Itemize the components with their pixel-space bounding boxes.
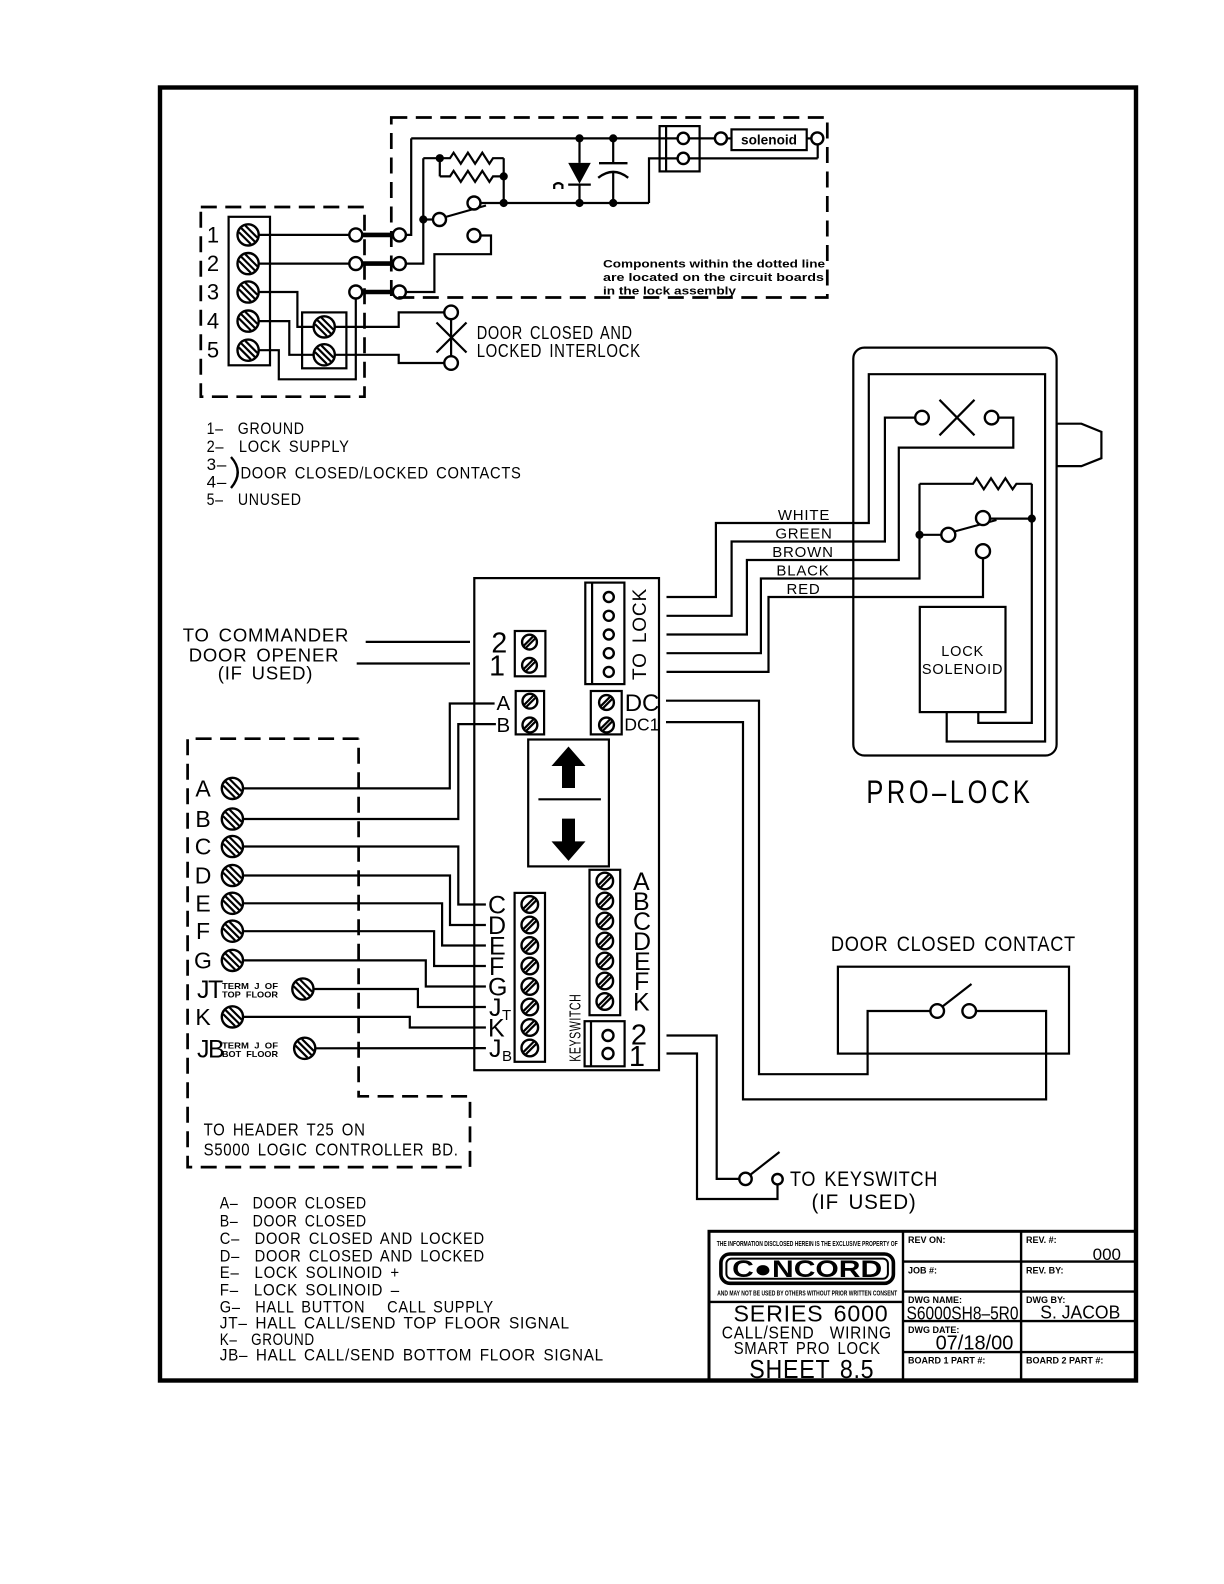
door switch S4 throw: [962, 1004, 976, 1018]
svg-text:(IF USED): (IF USED): [218, 663, 314, 684]
svg-text:1: 1: [629, 1041, 645, 1073]
svg-text:B– DOOR CLOSED: B– DOOR CLOSED: [220, 1212, 367, 1231]
node throw: [1028, 515, 1036, 523]
lock solenoid box: [920, 607, 1006, 712]
svg-text:S. JACOB: S. JACOB: [1040, 1302, 1120, 1323]
wire pivot stub: [423, 218, 433, 220]
wire to commander 1: [357, 662, 470, 664]
terminal block TB1 body: [229, 217, 270, 365]
svg-text:(IF USED): (IF USED): [812, 1191, 917, 1214]
header strip screws C-JB: [522, 896, 539, 913]
svg-text:DOOR CLOSED/LOCKED CONTACTS: DOOR CLOSED/LOCKED CONTACTS: [241, 463, 522, 482]
svg-text:B: B: [497, 714, 511, 737]
wire brown: [667, 418, 1014, 635]
svg-text:S5000 LOGIC CONTROLLER BD.: S5000 LOGIC CONTROLLER BD.: [204, 1139, 459, 1159]
aux screw upper: [314, 316, 335, 337]
resistor R1: [423, 153, 503, 164]
header labels: [194, 775, 212, 1030]
svg-text:4: 4: [207, 309, 219, 334]
lock relay strip body: [590, 870, 621, 1015]
terminal 2 screw: [238, 253, 259, 274]
node pivot junction: [419, 215, 427, 223]
diode D1: [578, 138, 580, 163]
node diode top: [575, 134, 583, 142]
header T25 dashed enclosure: [188, 739, 470, 1167]
wire terminal 2 to contact: [259, 263, 350, 265]
svg-text:BLACK: BLACK: [776, 563, 829, 580]
node capacitor bottom: [609, 199, 617, 207]
bottom rail: [481, 202, 650, 204]
svg-text:K: K: [633, 989, 650, 1017]
svg-text:5– UNUSED: 5– UNUSED: [207, 490, 302, 509]
wire row 1 riser to top rail: [406, 138, 411, 235]
svg-text:2– LOCK SUPPLY: 2– LOCK SUPPLY: [207, 437, 350, 456]
svg-text:REV ON:: REV ON:: [908, 1235, 946, 1245]
terminal 4 screw: [238, 311, 259, 332]
wire black: [667, 535, 920, 653]
node bottom rail left: [500, 199, 508, 207]
svg-text:3: 3: [207, 280, 219, 305]
pro-lock interlock X: [940, 400, 975, 436]
pro-lock interlock contacts: [915, 411, 929, 425]
switch S3 pivot contact: [941, 528, 955, 542]
keyswitch S5 throw: [772, 1174, 782, 1184]
wire JB to board: [315, 1047, 486, 1049]
commander screw 2: [522, 635, 537, 650]
door switch S4 arm: [943, 984, 972, 1007]
interlock X symbol: [437, 323, 467, 353]
svg-text:GREEN: GREEN: [775, 526, 832, 543]
svg-text:LOCKED INTERLOCK: LOCKED INTERLOCK: [477, 341, 641, 361]
keyswitch S5 arm: [751, 1152, 780, 1175]
svg-text:TOP FLOOR: TOP FLOOR: [222, 991, 278, 1000]
svg-text:BOT FLOOR: BOT FLOOR: [222, 1050, 278, 1059]
wire aux upper to interlock: [335, 312, 445, 327]
pro-lock latch tab: [1057, 424, 1102, 466]
node resistor left: [436, 154, 444, 162]
svg-text:E– LOCK SOLINOID +: E– LOCK SOLINOID +: [220, 1263, 400, 1282]
svg-text:TO COMMANDER: TO COMMANDER: [183, 624, 349, 645]
svg-text:C– DOOR CLOSED AND LOCKED: C– DOOR CLOSED AND LOCKED: [220, 1229, 485, 1248]
connector upper pin line: [660, 137, 715, 139]
resistor R3: [920, 478, 1032, 489]
legend header signals: [220, 1194, 604, 1365]
svg-text:B: B: [502, 1048, 512, 1065]
wire F to board: [243, 931, 486, 966]
title cell labels: [908, 1235, 1103, 1366]
svg-text:A– DOOR CLOSED: A– DOOR CLOSED: [220, 1194, 367, 1213]
svg-text:DC1: DC1: [624, 715, 659, 735]
connector pin contacts: [678, 133, 689, 144]
keyswitch pins: [603, 1030, 614, 1041]
arrow indicator box: [528, 740, 609, 867]
connector contact pair row 1: [349, 228, 362, 241]
board labels C-JB: [488, 891, 507, 1063]
svg-text:G: G: [194, 947, 212, 973]
switch S1 NC throw on bottom rail: [468, 197, 481, 210]
wire DC1 to door switch: [666, 722, 1046, 1099]
wire throw upper to node: [990, 517, 1032, 519]
terminal block TB1 dashed enclosure: [201, 207, 365, 397]
wire K to board: [243, 1017, 486, 1028]
terminal 5 screw: [238, 340, 259, 361]
labels A-K right strip: [633, 868, 651, 1017]
wire DC to door switch: [666, 701, 930, 1074]
svg-text:TO LOCK: TO LOCK: [630, 588, 651, 680]
wire G to board: [243, 960, 486, 986]
switch S1 arm: [446, 206, 487, 218]
door switch S4 pivot: [930, 1004, 944, 1018]
node capacitor top: [609, 134, 617, 142]
wire to commander 2: [366, 641, 470, 643]
wire keyswitch 2: [667, 1036, 740, 1179]
switch S1 pivot contact: [433, 213, 446, 226]
node R2 right: [500, 172, 508, 180]
diode polarity mark: [554, 183, 562, 189]
screw A: [523, 694, 538, 709]
svg-text:BROWN: BROWN: [772, 544, 834, 561]
wire B to board: [243, 724, 496, 819]
wire white: [667, 374, 1046, 741]
concord logo: [721, 1254, 894, 1283]
svg-text:A: A: [497, 692, 511, 715]
switch S1 NO throw: [468, 229, 481, 242]
commander screw 1: [522, 658, 537, 673]
terminal 3 screw: [238, 281, 259, 302]
lock assembly dashed enclosure: [391, 118, 827, 298]
solenoid terminal right: [807, 137, 812, 139]
connector contact pair row 2: [349, 257, 362, 270]
wire solenoid return loop: [817, 144, 819, 158]
wire throw node to solenoid: [978, 519, 1032, 723]
switch S3 throw upper: [976, 511, 990, 525]
interlock switch S2 contacts: [444, 306, 458, 320]
svg-text:in the lock assembly: in the lock assembly: [603, 286, 736, 298]
solenoid terminal left: [715, 132, 727, 144]
header screw E: [222, 893, 243, 914]
svg-text:000: 000: [1093, 1245, 1121, 1264]
svg-text:3–: 3–: [207, 455, 228, 474]
svg-text:THE INFORMATION DISCLOSED HERE: THE INFORMATION DISCLOSED HEREIN IS THE …: [717, 1239, 898, 1248]
resistor R2: [440, 171, 504, 182]
svg-text:BOARD 2 PART #:: BOARD 2 PART #:: [1026, 1356, 1103, 1366]
aux terminal block TB2 body: [302, 312, 346, 368]
pro-lock housing: [853, 348, 1056, 756]
header screw B: [222, 808, 243, 829]
commander terminal block body: [515, 631, 546, 676]
wire terminal 5 to contact row 3: [259, 299, 356, 380]
TO LOCK connector J1 body: [585, 583, 624, 685]
wire terminal 3 to aux block: [259, 292, 314, 327]
svg-text:SOLENOID: SOLENOID: [922, 662, 1003, 678]
svg-text:BOARD 1 PART #:: BOARD 1 PART #:: [908, 1356, 985, 1366]
svg-text:D: D: [195, 863, 212, 889]
TO LOCK pins: [604, 592, 614, 602]
svg-text:RED: RED: [786, 581, 820, 598]
wire keyswitch 1: [667, 1054, 778, 1200]
keyswitch connector body: [585, 1021, 625, 1066]
terminal 1 screw: [238, 224, 259, 245]
header screw D: [222, 865, 243, 886]
switch S3 throw lower: [976, 544, 990, 558]
wire terminal 1 to contact: [259, 234, 350, 236]
svg-text:WHITE: WHITE: [778, 507, 830, 524]
capacitor C1: [612, 138, 614, 163]
wire JT to board: [314, 989, 486, 1007]
sheet border frame: [160, 88, 1136, 1381]
switch S3 pivot node: [915, 531, 923, 539]
wire terminal 4 to aux block: [259, 321, 314, 355]
header screw C: [222, 836, 243, 857]
legend brace: [231, 457, 238, 488]
svg-text:1: 1: [207, 222, 219, 247]
svg-text:B: B: [195, 806, 210, 832]
svg-text:C: C: [195, 834, 212, 860]
arrow divider: [538, 798, 601, 800]
svg-text:F: F: [196, 918, 210, 944]
keyswitch S5 pivot: [739, 1173, 751, 1185]
screw DC1: [599, 718, 614, 733]
svg-text:Components within the dotted l: Components within the dotted line: [603, 259, 825, 271]
wire C to board: [243, 847, 486, 905]
svg-text:REV. BY:: REV. BY:: [1026, 1265, 1064, 1275]
header screw K: [222, 1006, 243, 1027]
svg-text:K: K: [195, 1004, 211, 1030]
svg-text:REV. #:: REV. #:: [1026, 1235, 1057, 1245]
header strip body: [515, 893, 545, 1062]
aux screw lower: [314, 344, 335, 365]
wire resistor left tie: [439, 158, 441, 176]
wire aux lower to interlock: [335, 355, 445, 363]
svg-text:solenoid: solenoid: [741, 132, 797, 147]
DC terminal block body: [591, 691, 622, 734]
note components within dotted line: [603, 259, 825, 298]
wire D to board: [243, 876, 486, 926]
connector contact pair row 3: [349, 286, 362, 299]
terminal labels 1-5: [207, 222, 219, 362]
controller board outline: [474, 578, 659, 1070]
svg-text:E: E: [195, 890, 210, 916]
header screw G: [222, 950, 243, 971]
svg-text:DC: DC: [625, 690, 660, 717]
title block frame: [709, 1231, 1136, 1381]
svg-text:are located on the circuit boa: are located on the circuit boards: [603, 272, 824, 284]
svg-text:TO HEADER T25 ON: TO HEADER T25 ON: [204, 1119, 366, 1139]
wire E to board: [243, 903, 486, 945]
wire pivot stub: [920, 534, 942, 536]
svg-text:T: T: [502, 1007, 511, 1024]
wire row 3 to switch NO throw: [406, 236, 491, 293]
top supply rail: [411, 137, 659, 139]
svg-text:2: 2: [207, 251, 219, 276]
svg-text:JB– HALL CALL/SEND BOTTOM FLOO: JB– HALL CALL/SEND BOTTOM FLOOR SIGNAL: [220, 1345, 604, 1364]
connector lower pin line: [660, 157, 818, 159]
wire color labels: [772, 507, 834, 598]
wire bottom rail to connector lower pin: [649, 158, 660, 203]
svg-text:KEYSWITCH: KEYSWITCH: [568, 994, 585, 1062]
svg-text:J: J: [489, 1035, 502, 1063]
wire row 2 riser to resistor node: [406, 158, 423, 263]
svg-text:S6000SH8–5R0: S6000SH8–5R0: [907, 1303, 1019, 1324]
lock relay screws A-K: [597, 873, 614, 890]
header screw A: [222, 778, 243, 799]
AB terminal block body: [516, 691, 544, 734]
solenoid SOL1 box: [732, 129, 807, 150]
svg-text:LOCK: LOCK: [941, 644, 984, 660]
wire A to board: [243, 704, 495, 789]
wire green: [667, 418, 916, 616]
down arrow: [552, 819, 586, 861]
wire red: [667, 558, 984, 672]
svg-text:DOOR CLOSED AND: DOOR CLOSED AND: [477, 323, 633, 343]
svg-text:AND MAY NOT BE USED BY OTHERS: AND MAY NOT BE USED BY OTHERS WITHOUT PR…: [717, 1288, 897, 1297]
connector CN1 body: [660, 126, 700, 171]
svg-text:TO KEYSWITCH: TO KEYSWITCH: [790, 1168, 938, 1191]
svg-text:DOOR CLOSED CONTACT: DOOR CLOSED CONTACT: [831, 933, 1076, 956]
svg-text:1– GROUND: 1– GROUND: [207, 419, 305, 438]
header screw JT: [292, 978, 313, 999]
svg-text:PRO–LOCK: PRO–LOCK: [866, 774, 1033, 810]
header screw F: [222, 921, 243, 942]
wire resistor right tie to bottom rail: [503, 158, 505, 203]
screw DC: [599, 695, 614, 710]
svg-text:1: 1: [489, 651, 505, 683]
switch S3 arm: [955, 520, 997, 532]
svg-text:A: A: [195, 775, 211, 801]
svg-text:T: T: [208, 976, 223, 1004]
svg-text:5: 5: [207, 338, 219, 363]
legend terminal functions: [207, 419, 522, 509]
up arrow: [552, 747, 586, 789]
node diode bottom: [575, 199, 583, 207]
svg-text:JOB #:: JOB #:: [908, 1265, 937, 1275]
screw B: [523, 718, 538, 733]
wire resistor right to throw node: [1031, 484, 1033, 519]
svg-text:4–: 4–: [207, 472, 228, 491]
label to commander door opener: [183, 624, 349, 683]
header screw JB: [294, 1038, 315, 1059]
svg-text:C●NCORD: C●NCORD: [732, 1256, 882, 1283]
svg-text:07/18/00: 07/18/00: [936, 1333, 1014, 1355]
door closed contact enclosure: [838, 967, 1069, 1054]
wire resistor left to pivot node: [918, 484, 920, 535]
